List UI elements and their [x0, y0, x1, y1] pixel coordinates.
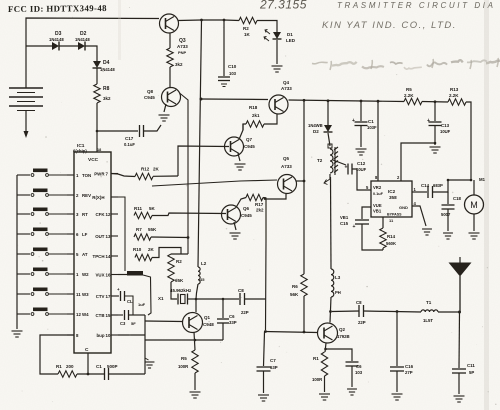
ground below Q8-C17 — [159, 115, 170, 121]
capacitor C7 63P — [257, 366, 271, 368]
IC1 bottom stub — [87, 353, 89, 374]
ground below C6 — [347, 389, 357, 395]
wire C16 to ground — [396, 371, 398, 392]
inductor T1 — [421, 310, 438, 312]
capacitor C18 — [442, 204, 455, 206]
wire R4 to ground — [324, 376, 326, 392]
wire rail to C1 — [360, 101, 362, 121]
wire X1 to node — [188, 298, 197, 300]
scan streak — [484, 0, 489, 410]
wire D4 to R8 — [96, 68, 98, 84]
ground below Q6 — [230, 233, 241, 239]
inductor L3 — [331, 269, 334, 297]
capacitor C3 at pin15 — [111, 314, 123, 316]
junction pin10 wire — [118, 334, 145, 336]
resistor R2 — [239, 17, 257, 23]
wire D2 to T2 — [328, 133, 330, 146]
junction R6 base — [303, 331, 306, 334]
capacitor C15 electrolytic — [355, 219, 369, 221]
capacitor C12 — [347, 164, 349, 175]
ground below C16 — [392, 394, 403, 400]
wire motor top — [473, 180, 475, 195]
resistor R5 — [404, 98, 422, 104]
wire L2 to X1 node — [196, 284, 198, 299]
wire bus x304 — [303, 100, 305, 274]
wire R2 to LED — [257, 21, 277, 33]
wire C11 to ground — [458, 373, 460, 394]
wire Q8 collector to bus B — [180, 93, 189, 254]
wire R14 to loop — [382, 248, 384, 250]
IC2 pin1 wire to C14 — [412, 191, 427, 193]
wire Q8 emitter to ground — [164, 104, 166, 112]
ground below C18 — [443, 233, 453, 239]
wire R10 staircase — [152, 248, 181, 258]
ground below R4 — [319, 394, 330, 400]
wire emitter to C6 — [326, 349, 353, 361]
wire R11 to Q6 base — [152, 213, 226, 216]
IC2 pin2 wire — [401, 143, 434, 181]
wire C7 to ground — [263, 371, 265, 393]
junction C16 node — [396, 310, 399, 313]
ground below IC2 pin4 — [422, 229, 432, 235]
wire pin8 loop — [40, 335, 74, 374]
wire C5 to emitter line — [222, 323, 224, 340]
junction L3 output node — [329, 310, 332, 313]
capacitor C8 22P — [239, 293, 241, 305]
ground below C13 — [430, 147, 441, 153]
battery negative lead with arrow — [25, 111, 27, 135]
resistor R7 — [134, 234, 151, 240]
wire Q5 collector to bus — [297, 180, 305, 182]
wire motor bottom — [473, 214, 475, 231]
faint handwriting scribble line — [312, 58, 500, 70]
wire Q1 base — [145, 320, 183, 323]
wire R12 to riser — [153, 175, 178, 177]
wire R13 to motor column — [466, 102, 471, 179]
wire R1 to C junction — [77, 373, 104, 375]
diode D2 vertical 1N4148 — [324, 125, 332, 132]
ground below C10 — [221, 84, 227, 87]
wire C10 branch — [223, 20, 225, 76]
junction dot C1 branch — [360, 100, 363, 103]
wire Q7 emitter to ground — [238, 154, 240, 162]
resistor R1 — [58, 371, 77, 377]
wire R6 to base — [303, 296, 305, 332]
wire Q6 emitter to ground — [234, 222, 236, 230]
junction C5 branch — [222, 298, 225, 301]
inductor L2 — [198, 267, 200, 284]
ground below C11 — [454, 396, 465, 402]
wire C13 to ground — [434, 126, 436, 146]
wire Q5 base from left — [152, 180, 277, 186]
transistor Q1 — [183, 313, 203, 333]
junction osc node — [195, 298, 198, 301]
wire C6 to ground — [351, 366, 353, 387]
capacitor C1 electrolytic — [355, 121, 368, 123]
ground below switch bus — [12, 331, 23, 337]
junction C7 node — [264, 330, 267, 333]
junction motor node — [447, 179, 450, 182]
ground at x149 — [145, 362, 155, 368]
wire rail to C13 — [434, 102, 436, 121]
junction Q2 emitter node — [324, 348, 327, 351]
resistor R15 — [192, 350, 198, 373]
capacitor C13 electrolytic — [429, 121, 442, 123]
ground below C1 — [356, 149, 367, 155]
wire Q1 emitter — [194, 332, 195, 350]
ground stub midline — [145, 358, 149, 360]
junction dot D2v branch — [327, 99, 330, 102]
capacitor C6 103 — [346, 361, 359, 363]
switch bus wire — [16, 175, 18, 329]
wire jumper down — [143, 275, 151, 315]
resistor R2 65K vertical — [168, 254, 174, 282]
capacitor C9 22P — [358, 305, 360, 317]
junction dot C node — [87, 373, 90, 376]
junction dot bus x304 — [303, 99, 306, 102]
vertical wire x145 — [144, 315, 146, 374]
emitter horizontal wire — [145, 339, 223, 341]
wire C9 to T1 — [364, 311, 422, 312]
diode D3 — [52, 42, 59, 50]
wire Q4 emitter down to R18 — [264, 114, 277, 124]
T2 top pad — [328, 144, 332, 148]
wire C3 to vertical — [129, 314, 145, 316]
wire node to Q1 collector — [195, 299, 197, 312]
transistor Q3 — [160, 14, 179, 33]
junction dot IC2 pin8 branch — [377, 100, 380, 103]
junction dot R7 bus — [187, 236, 190, 239]
wire C18 to ground — [447, 209, 449, 231]
wire R17 junction to Q2 base loop — [263, 198, 266, 331]
wire diode feed from battery column — [26, 45, 52, 47]
transformer T2 winding — [330, 149, 333, 173]
wire C8 to Q2 loop — [245, 298, 266, 300]
IC1 right pin stubs — [111, 173, 118, 175]
junction motor top — [470, 179, 473, 182]
capacitor C10 — [218, 76, 230, 78]
wire Q7 collector — [239, 124, 243, 140]
wire rail to D2 — [327, 101, 329, 125]
capacitor C11 5P — [452, 368, 466, 370]
supply rail right of Q4 — [289, 100, 405, 102]
IC1 left pins and labels — [67, 174, 74, 176]
wire T1 to antenna node — [438, 311, 460, 313]
wire antenna node to C11 — [458, 312, 461, 368]
wire Q2 emitter — [325, 343, 326, 352]
wire C1 to x145 — [109, 373, 146, 375]
wire output node to C9 — [332, 310, 359, 313]
wire C12 to IC2 pin5 — [352, 169, 371, 190]
ground below LED D1 — [272, 66, 283, 72]
junction dot R17 node — [264, 197, 267, 200]
wire L3 to Q2 collector — [330, 297, 331, 323]
transistor Q2 — [318, 323, 338, 343]
wire Q5 emitter down — [264, 194, 286, 199]
resistor R13 — [448, 99, 466, 105]
junction antenna node — [458, 311, 461, 314]
wire C17 to ground — [144, 125, 162, 131]
wire C4 to C3 column — [125, 296, 133, 315]
wire IC pin7 to R12 — [111, 174, 135, 177]
vertical bus A from top rail — [198, 20, 202, 267]
IC1 body — [74, 152, 111, 353]
wire Q3 collector right — [179, 19, 202, 22]
transistor Q7 — [225, 137, 244, 156]
resistor R12 — [135, 173, 153, 179]
ground below Q7 — [235, 164, 246, 170]
diode D2 1N4148 — [78, 42, 85, 50]
capacitor C17 — [139, 125, 141, 137]
transistor Q6 — [222, 205, 241, 224]
IC2 pin11 stub to R14 — [382, 217, 384, 228]
ground below C7 — [258, 395, 269, 401]
wire D3 to D2 — [59, 45, 78, 47]
wire top rail to R2 — [224, 19, 239, 22]
motor M1 — [465, 195, 484, 214]
wire D2 to D4 corner — [85, 46, 97, 61]
LED D1 — [273, 32, 281, 39]
wire C18 branch — [447, 192, 449, 204]
wire R7 to bus B — [151, 236, 188, 239]
wire C1 to ground — [360, 126, 362, 148]
oscillator tie wire — [171, 253, 188, 255]
resistor R11 — [134, 212, 152, 218]
battery B1 — [9, 88, 43, 111]
capacitor C17 stub — [97, 130, 138, 132]
wire Q6 collector to R17 — [236, 198, 246, 208]
wire battery to top rail — [26, 18, 159, 88]
capacitor C5 33P — [217, 318, 229, 320]
wire R15 to ground — [194, 373, 196, 390]
wire R18 to Q7 collector riser — [243, 124, 246, 130]
junction dot C13 branch — [434, 100, 437, 103]
wire C14 to motor node — [433, 180, 472, 192]
resistor R14 — [380, 228, 386, 248]
junction dot C10 top — [223, 19, 226, 22]
resistor R4 100R — [321, 352, 327, 376]
T2 core hatch — [334, 147, 338, 175]
resistor R6 56K — [301, 274, 307, 296]
transistor Q5 — [278, 175, 297, 194]
wire Q7 base riser — [178, 146, 229, 176]
crystal X1 — [177, 294, 179, 305]
wire top rail Q3 to C10 — [201, 19, 224, 21]
junction emitter line — [194, 339, 197, 342]
IC2 pin left C15 wire — [362, 207, 371, 219]
wire node to C5 and C8 — [196, 298, 239, 300]
wire R8 to IC1 VCC pin — [96, 103, 98, 152]
wire C16 branch — [396, 312, 398, 367]
wire T2 to L3 bus — [330, 177, 333, 269]
supply rail wire — [201, 98, 268, 101]
IC2 body — [371, 181, 412, 217]
wire LED to ground — [276, 40, 278, 64]
capacitor C4 at pin17 — [111, 295, 119, 297]
capacitor C14 — [427, 186, 429, 198]
resistor R17 — [246, 194, 263, 200]
junction C13 pin2 — [434, 142, 437, 145]
wire C15 bottom loop — [362, 224, 383, 250]
ground below R15 — [190, 392, 201, 398]
IC2 pin8 wire to rail — [377, 101, 379, 181]
capacitor C1 500P — [104, 368, 106, 380]
wire T2 to C12 — [333, 160, 346, 165]
capacitor C16 27P — [390, 366, 404, 368]
junction dot bus A top — [200, 19, 203, 22]
wire C5 branch down — [222, 299, 224, 318]
T2 bottom arrow — [329, 174, 331, 179]
resistor 3k2 below Q3 — [167, 48, 173, 67]
pushbutton switches S1-S8 — [17, 174, 30, 176]
transistor Q4 — [269, 95, 288, 114]
IC2 pin4 wire to ground — [412, 206, 426, 226]
wire pin9 riser — [114, 197, 125, 271]
wire resistor to Q8 — [169, 67, 171, 88]
transistor Q8 — [162, 88, 181, 107]
junction dot Q5 bus — [303, 180, 306, 183]
wire Q3 emitter to resistor — [169, 33, 171, 49]
wire R5 to R13 — [422, 101, 448, 104]
antenna — [459, 257, 461, 263]
resistor R10 — [135, 254, 152, 260]
resistor R8 — [94, 84, 100, 103]
wire C7 branch — [264, 332, 265, 367]
Q2 base wire — [264, 332, 318, 333]
jumper at pin16 — [118, 274, 127, 276]
junction dot rail-busA — [200, 98, 203, 101]
diode D4 — [93, 61, 101, 68]
resistor R18 — [246, 121, 264, 127]
wire R2v to X1 — [171, 282, 177, 299]
ground below motor — [469, 233, 480, 239]
